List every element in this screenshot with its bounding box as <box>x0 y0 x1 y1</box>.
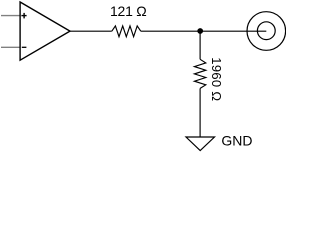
wire op-amp output to R1 <box>70 30 112 32</box>
coax connector inner circle <box>257 22 275 40</box>
svg-text:GND: GND <box>221 132 252 148</box>
wire op-amp noninverting input <box>1 15 20 17</box>
resistor R1 121 ohm <box>112 26 141 37</box>
op-amp plus input marker <box>21 13 26 19</box>
wire R2 to ground <box>199 88 201 137</box>
coax connector outer circle <box>247 12 286 51</box>
wire node to R2 <box>199 31 201 59</box>
resistor R2 1960 ohm <box>194 59 205 88</box>
node junction dot <box>197 28 203 34</box>
wire op-amp inverting input <box>1 46 20 48</box>
svg-text:121 Ω: 121 Ω <box>110 3 146 19</box>
svg-text:1960 Ω: 1960 Ω <box>209 57 224 101</box>
wire R1 to node and connector <box>141 30 266 32</box>
ground symbol <box>186 137 215 151</box>
op-amp U1 <box>20 2 70 60</box>
op-amp minus input marker <box>22 46 27 48</box>
